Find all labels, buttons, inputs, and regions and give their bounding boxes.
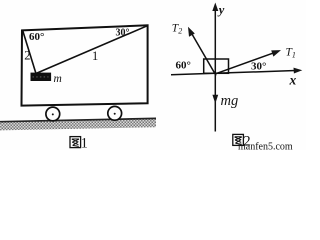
block on axes (figure 2) — [204, 59, 229, 73]
force mg (arrow down) — [212, 95, 218, 104]
ground (hatched strip under cart) — [0, 118, 156, 130]
force T2 (arrow up-left at 60°) — [188, 27, 216, 76]
svg-text:1: 1 — [81, 136, 88, 150]
block m (black mass on strings) — [31, 73, 52, 81]
svg-text:m: m — [54, 73, 62, 85]
svg-text:y: y — [217, 3, 225, 17]
svg-text:2: 2 — [24, 49, 30, 63]
svg-text:30°: 30° — [251, 61, 266, 73]
wheel left — [46, 107, 60, 121]
svg-text:manfen5.com: manfen5.com — [238, 142, 293, 151]
string 1 (from block to top-right corner) — [36, 26, 148, 74]
svg-text:x: x — [289, 72, 297, 87]
force T1 (arrow up-right at 30°) — [216, 50, 282, 74]
svg-text:T2: T2 — [172, 23, 182, 36]
caption 图2 — [233, 134, 244, 145]
svg-text:mg: mg — [221, 93, 239, 109]
svg-text:T1: T1 — [286, 47, 296, 60]
x-axis — [171, 68, 302, 75]
wheel right — [108, 106, 122, 120]
svg-text:60°: 60° — [29, 31, 44, 43]
cart body (figure 1) — [22, 25, 148, 105]
caption 图1 — [70, 137, 81, 148]
y-axis — [212, 3, 218, 132]
svg-text:60°: 60° — [176, 60, 191, 72]
svg-text:30°: 30° — [116, 28, 130, 39]
svg-text:1: 1 — [92, 49, 98, 63]
string 2 (from top-left corner to block) — [23, 31, 36, 74]
